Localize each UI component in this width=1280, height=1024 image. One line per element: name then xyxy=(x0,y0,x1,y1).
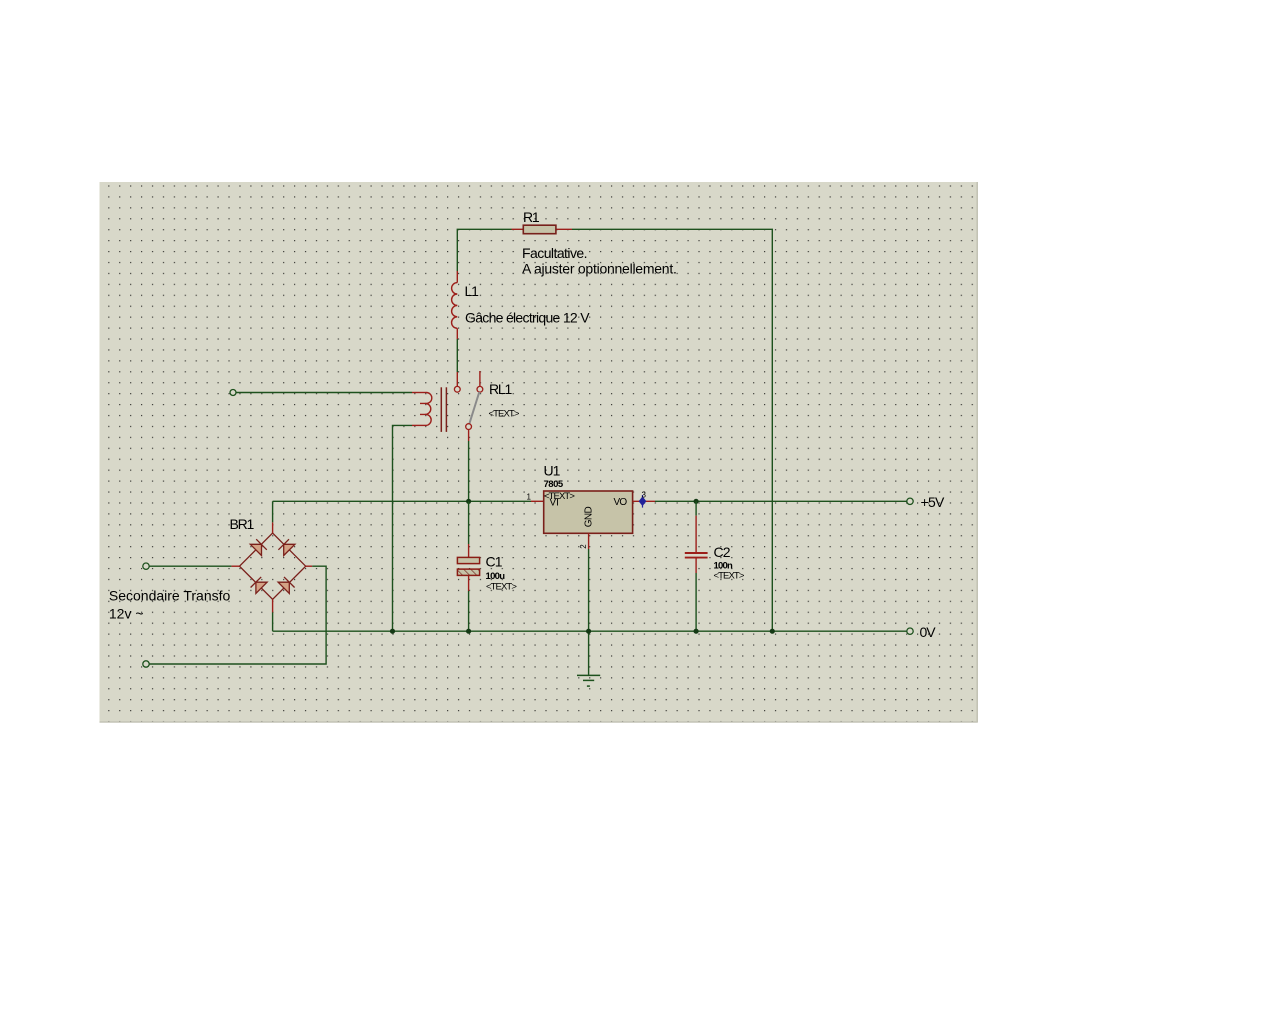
input terminal (relay drive) xyxy=(230,390,236,396)
junction: C1 on 0V xyxy=(466,629,471,634)
junction: relay return on 0V xyxy=(390,629,395,634)
svg-text:Gâche électrique 12 V: Gâche électrique 12 V xyxy=(465,310,590,326)
bridge BR1 arms xyxy=(240,533,306,599)
pin-3 blue origin marker xyxy=(639,495,645,508)
switch NO contact circle xyxy=(477,386,483,392)
inductor L1 xyxy=(452,271,458,328)
ground xyxy=(577,675,600,686)
junction: relay/C1 on VI rail xyxy=(466,499,471,504)
svg-text:VI: VI xyxy=(550,498,559,509)
svg-text:100u: 100u xyxy=(486,571,506,582)
grid dots xyxy=(100,182,978,723)
switch common circle xyxy=(466,424,472,430)
svg-text:Secondaire Transfo: Secondaire Transfo xyxy=(109,588,231,604)
svg-text:0V: 0V xyxy=(920,624,937,640)
relay RL1 coil xyxy=(412,392,432,425)
wire: switch common down to VI rail xyxy=(468,441,470,501)
svg-text:3: 3 xyxy=(642,491,647,500)
svg-text:12v ~: 12v ~ xyxy=(109,605,144,621)
capacitor C1 negative plate (hatched) xyxy=(457,569,479,575)
svg-text:U1: U1 xyxy=(544,463,561,479)
U1 pin 3 xyxy=(633,500,655,502)
svg-text:BR1: BR1 xyxy=(230,516,255,532)
U1 GND pin 2 xyxy=(588,533,590,549)
wire: AC left terminal to bridge xyxy=(149,565,231,567)
BR1 diode top-right (points NW) xyxy=(278,539,295,555)
svg-text:RL1: RL1 xyxy=(489,381,512,397)
svg-text:C2: C2 xyxy=(714,544,731,560)
svg-text:VO: VO xyxy=(614,497,628,508)
svg-text:GND: GND xyxy=(584,506,595,527)
wire: bridge right to AC lower terminal xyxy=(149,566,326,664)
wire: L1 bottom to switch pole xyxy=(456,339,458,372)
BR1 diode bottom-right (points NE) xyxy=(278,577,295,594)
svg-text:+5V: +5V xyxy=(921,494,946,510)
resistor R1 pins xyxy=(512,228,573,230)
svg-text:<TEXT>: <TEXT> xyxy=(714,571,745,582)
svg-text:L1: L1 xyxy=(465,283,480,299)
VI rail wire xyxy=(273,500,531,502)
svg-text:2: 2 xyxy=(579,544,588,549)
svg-text:R1: R1 xyxy=(523,209,540,225)
junction: R1 leg on 0V xyxy=(770,629,775,634)
svg-text:<TEXT>: <TEXT> xyxy=(489,409,520,420)
wire: VO rail to +5V terminal xyxy=(655,500,907,502)
capacitor C1 positive plate xyxy=(457,557,479,563)
BR1 diode bottom-left (points NW) xyxy=(251,577,268,594)
wire: bridge - down to 0V rail xyxy=(272,612,274,631)
switch common pin xyxy=(468,430,470,442)
+5V terminal xyxy=(907,498,913,504)
wire: bridge + up to VI rail xyxy=(272,501,274,522)
AC input terminal lower xyxy=(143,661,149,667)
switch NO contact stub xyxy=(479,371,481,386)
0V terminal xyxy=(907,628,913,634)
switch pole contact circle xyxy=(454,386,460,392)
capacitor C2 wires xyxy=(695,501,697,631)
capacitor C2 pins xyxy=(695,516,697,573)
capacitor C1 pins xyxy=(468,544,470,591)
svg-text:C1: C1 xyxy=(486,554,503,570)
svg-text:Facultative.: Facultative. xyxy=(522,245,587,261)
U1 pin 1 xyxy=(531,500,544,502)
wire: relay coil return to 0V xyxy=(393,425,413,631)
capacitor C2 plates xyxy=(685,553,708,558)
wire: L1 top loop to R1 and down right side xyxy=(457,229,772,631)
schematic canvas background xyxy=(100,182,978,723)
BR1 pins xyxy=(231,522,312,612)
junction: C2 on 0V xyxy=(694,629,699,634)
AC input terminal upper xyxy=(143,563,149,569)
wire: GND pin to ground symbol xyxy=(588,549,590,675)
svg-text:7805: 7805 xyxy=(544,479,564,490)
switch blade xyxy=(469,392,479,424)
relay core xyxy=(441,387,446,432)
resistor R1 xyxy=(523,225,556,234)
regulator U1 body xyxy=(544,491,633,533)
svg-text:A ajuster optionnellement.: A ajuster optionnellement. xyxy=(522,260,677,276)
BR1 diode top-left (points NE) xyxy=(250,539,266,555)
switch pole pin xyxy=(456,328,458,386)
0V rail xyxy=(273,630,907,632)
wire: terminal to relay coil xyxy=(236,392,412,394)
svg-text:1: 1 xyxy=(527,493,532,502)
junction: C2 on +5V rail xyxy=(694,499,699,504)
svg-text:<TEXT>: <TEXT> xyxy=(486,582,517,593)
capacitor C1 wires xyxy=(468,501,470,631)
junction: GND line on 0V xyxy=(586,629,591,634)
